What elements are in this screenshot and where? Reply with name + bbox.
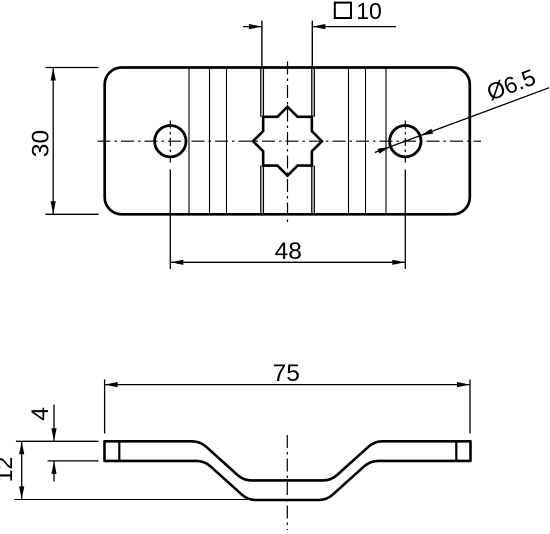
svg-text:75: 75 bbox=[273, 360, 300, 387]
square hole projection lines inside plate bbox=[261, 68, 264, 215]
svg-text:12: 12 bbox=[0, 457, 17, 483]
dimension 75 extension lines bbox=[105, 380, 470, 434]
centerline right hole bbox=[404, 121, 406, 163]
horizontal centerline bbox=[98, 140, 482, 142]
centerline left hole bbox=[169, 121, 171, 163]
dimension 75 line bbox=[105, 384, 470, 386]
dimension 12 line bbox=[21, 441, 23, 499]
plate outline top view bbox=[105, 68, 470, 215]
extension line thickness bbox=[48, 460, 99, 462]
square hole extension lines above plate bbox=[262, 21, 312, 68]
profile centerline bbox=[286, 435, 288, 530]
dimension 48 extension lines bbox=[170, 170, 405, 270]
dimension 4 lines bbox=[53, 405, 55, 482]
svg-text:30: 30 bbox=[27, 130, 54, 157]
strap outline bbox=[105, 441, 471, 500]
svg-text:4: 4 bbox=[27, 407, 54, 421]
extension line bottom 12 bbox=[14, 499, 255, 501]
hole right bbox=[390, 126, 421, 157]
dimension square10 line left part bbox=[243, 26, 262, 28]
dimension 48 line bbox=[170, 261, 405, 263]
svg-text:10: 10 bbox=[356, 0, 382, 24]
dimension square10 line right part bbox=[312, 26, 396, 28]
extension line top shared bbox=[16, 440, 99, 442]
dimension 30 line bbox=[52, 68, 54, 215]
hole left bbox=[155, 126, 186, 157]
star square hole bbox=[253, 107, 322, 176]
svg-text:48: 48 bbox=[275, 238, 302, 265]
vertical centerline star bbox=[287, 62, 289, 225]
dimension 30 extension lines bbox=[46, 68, 99, 215]
end mark left bbox=[118, 441, 120, 461]
bend projection lines left bbox=[189, 68, 227, 215]
leader line dia6.5 bbox=[375, 88, 549, 153]
square symbol bbox=[335, 3, 351, 18]
end mark right bbox=[455, 441, 457, 461]
bend projection lines right bbox=[349, 68, 387, 215]
